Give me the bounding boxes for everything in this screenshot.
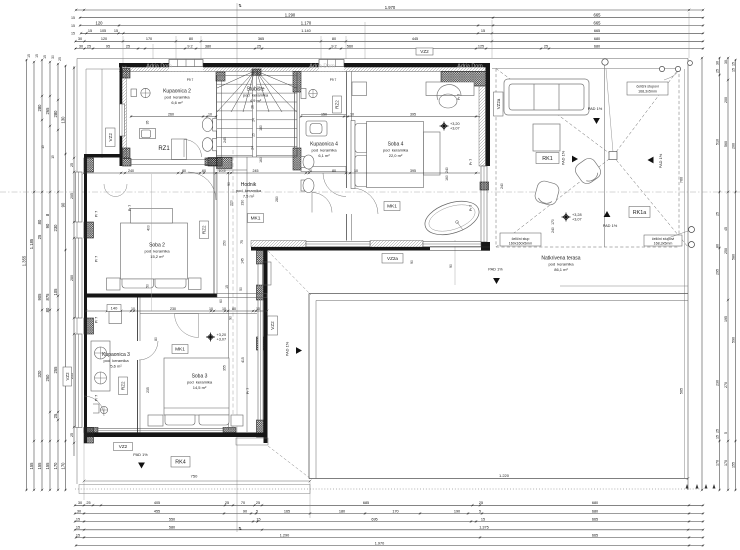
svg-text:25: 25 — [715, 69, 719, 73]
label box: celicni stupovi bottom — [644, 235, 682, 246]
svg-text:590: 590 — [731, 337, 735, 343]
bathtub — [421, 195, 484, 241]
pavement strip bottom-left — [79, 485, 310, 494]
svg-text:395: 395 — [410, 169, 416, 173]
svg-text:Pr 7: Pr 7 — [95, 256, 99, 262]
svg-text:155: 155 — [45, 462, 50, 470]
svg-text:30: 30 — [724, 60, 728, 64]
staircase stringers — [253, 72, 298, 158]
svg-text:RZ2: RZ2 — [335, 100, 340, 109]
terrace floor edge right segment y286 — [560, 285, 688, 287]
stairs landing — [217, 156, 298, 158]
svg-text:24: 24 — [252, 118, 256, 122]
patio outline outer — [309, 294, 688, 479]
Soba2/Kup3 wall y293.5-297.5 — [86, 294, 267, 298]
svg-text:+3,07: +3,07 — [572, 218, 582, 222]
slanted strut to node — [606, 69, 613, 153]
steel column circles right edge — [688, 61, 695, 248]
slope triangle: pad3 — [648, 157, 654, 164]
WC and bidet Kup2 — [202, 118, 216, 151]
svg-text:90: 90 — [227, 182, 231, 186]
svg-text:RZ1: RZ1 — [158, 146, 170, 152]
svg-text:160: 160 — [445, 175, 449, 181]
svg-text:10: 10 — [131, 307, 135, 311]
svg-text:80: 80 — [332, 169, 336, 173]
svg-text:RK1a: RK1a — [633, 210, 647, 216]
svg-text:130: 130 — [60, 116, 65, 124]
svg-text:170: 170 — [53, 462, 58, 470]
svg-text:6,1 m²: 6,1 m² — [318, 153, 330, 158]
dimension line: right B — [715, 57, 721, 492]
svg-text:405: 405 — [154, 501, 160, 505]
svg-text:1.290: 1.290 — [285, 13, 296, 18]
room label: Soba 4 — [383, 142, 409, 159]
Kup4/Soba4 partition x346-352 — [347, 72, 352, 241]
svg-text:665: 665 — [592, 533, 598, 537]
svg-text:pod keramika: pod keramika — [187, 380, 213, 385]
svg-text:PAD 1%: PAD 1% — [658, 153, 663, 168]
wall pier (hatched): soba2 e pier — [205, 158, 217, 166]
svg-text:760: 760 — [680, 177, 684, 183]
fixtures Kup4 — [301, 89, 327, 193]
svg-text:365: 365 — [258, 37, 264, 41]
svg-text:150: 150 — [321, 112, 327, 116]
dimension line: top L1 total 1.970 — [75, 5, 705, 12]
jog wall y154 x84-119 — [84, 154, 122, 158]
svg-text:455: 455 — [154, 509, 160, 513]
svg-text:25: 25 — [126, 44, 130, 48]
label box: VZ2 bottom — [114, 443, 133, 451]
washer box Kup2 — [140, 129, 156, 139]
svg-text:14,5 m²: 14,5 m² — [193, 385, 207, 390]
svg-text:15: 15 — [51, 155, 55, 159]
wall pier (hatched): lr pier mid — [257, 285, 264, 300]
svg-text:15: 15 — [27, 54, 31, 58]
svg-text:9 2: 9 2 — [187, 44, 192, 48]
svg-text:15,2 m²: 15,2 m² — [150, 254, 164, 259]
right exterior wall upper solid — [486, 63, 491, 166]
dotted property line y489 — [75, 488, 700, 490]
svg-text:25: 25 — [256, 501, 260, 505]
svg-text:125: 125 — [478, 44, 484, 48]
dimension line: right A — [701, 57, 704, 492]
dimension line: right D — [731, 59, 737, 492]
svg-text:15: 15 — [71, 16, 75, 20]
svg-text:VZ2: VZ2 — [420, 49, 429, 54]
svg-text:105: 105 — [53, 288, 58, 296]
svg-text:170: 170 — [392, 509, 398, 513]
svg-text:1.970: 1.970 — [385, 5, 396, 10]
label box: окно 140 — [107, 305, 121, 312]
small arrows at right of dotted line — [686, 484, 716, 489]
label box: RK4 — [171, 457, 190, 468]
svg-text:PAD 1%: PAD 1% — [561, 150, 566, 165]
desk and chair Soba 4 — [352, 82, 474, 108]
svg-text:200: 200 — [731, 143, 735, 149]
svg-text:80: 80 — [232, 307, 236, 311]
left exterior wall — [76, 154, 94, 443]
svg-text:Pr 7: Pr 7 — [95, 317, 99, 323]
wall pier (hatched): sw pier top — [293, 72, 301, 93]
svg-text:1.185: 1.185 — [29, 238, 34, 249]
wall pier (hatched): right wall pier — [480, 182, 489, 190]
dimension line: left C — [37, 59, 44, 492]
svg-text:230: 230 — [53, 224, 58, 232]
roof eaves outline top and left — [77, 58, 688, 60]
svg-text:90: 90 — [410, 260, 414, 264]
terrace square table — [533, 124, 560, 151]
svg-text:10: 10 — [209, 307, 213, 311]
SE corner upper section — [481, 242, 490, 251]
svg-text:Adria Dom: Adria Dom — [146, 64, 172, 70]
room label: Kupaonica 4 — [310, 142, 338, 159]
dimension line: right C — [724, 57, 730, 492]
svg-text:230: 230 — [170, 307, 176, 311]
svg-text:pod keramika: pod keramika — [144, 249, 170, 254]
node square at X crossing — [609, 152, 617, 160]
svg-text:30: 30 — [77, 509, 81, 513]
label box: MK1 soba3 — [172, 345, 188, 354]
svg-text:170: 170 — [146, 37, 152, 41]
level mark: soba4 level — [440, 122, 460, 131]
svg-text:30: 30 — [78, 37, 82, 41]
svg-text:5: 5 — [256, 509, 258, 513]
svg-text:pod keramika: pod keramika — [311, 148, 337, 153]
svg-text:pod keramika: pod keramika — [243, 93, 269, 98]
svg-text:30: 30 — [51, 55, 55, 59]
dimension line: interior kup3/soba3 — [85, 307, 269, 313]
svg-text:30: 30 — [78, 501, 82, 505]
svg-text:415: 415 — [241, 357, 245, 363]
svg-text:15: 15 — [76, 517, 80, 521]
label box: MK1 hodnik — [248, 214, 264, 223]
level mark: terrace level — [562, 213, 582, 222]
extension line x310 bottom — [309, 481, 311, 518]
svg-text:265: 265 — [45, 107, 50, 115]
left wall windows protruding — [76, 172, 83, 428]
window bump 2 in top wall — [319, 60, 344, 72]
svg-text:80: 80 — [332, 37, 336, 41]
svg-text:168,3x5mm: 168,3x5mm — [638, 90, 657, 94]
svg-text:10: 10 — [350, 112, 354, 116]
wall pier (hatched): lr pier bottom — [257, 420, 264, 437]
svg-text:25: 25 — [37, 234, 42, 239]
svg-text:270: 270 — [724, 382, 728, 388]
svg-text:550: 550 — [169, 517, 175, 521]
svg-text:80: 80 — [45, 307, 50, 312]
svg-text:4,9 m²: 4,9 m² — [250, 98, 262, 103]
svg-text:PAD 1%: PAD 1% — [133, 452, 148, 457]
svg-text:1.375: 1.375 — [479, 526, 489, 530]
svg-text:250: 250 — [724, 248, 728, 254]
svg-text:245: 245 — [253, 169, 259, 173]
svg-text:1.220: 1.220 — [499, 473, 510, 478]
svg-text:MK1: MK1 — [251, 216, 261, 222]
door arc into Kup3 — [139, 341, 158, 360]
svg-text:10: 10 — [256, 307, 260, 311]
svg-text:95: 95 — [106, 44, 110, 48]
svg-text:15: 15 — [76, 533, 80, 537]
corridor lines — [228, 172, 230, 430]
svg-text:80: 80 — [189, 37, 193, 41]
svg-text:60: 60 — [219, 299, 223, 303]
svg-text:25: 25 — [257, 44, 261, 48]
bed Soba 2 — [107, 209, 202, 291]
wall pier (hatched): lw pier 1 — [84, 158, 94, 172]
slope triangle: pad6 — [138, 463, 145, 469]
dimension line: top L3 — [79, 20, 705, 27]
svg-text:750: 750 — [191, 474, 198, 479]
svg-text:Pr 7: Pr 7 — [128, 205, 132, 211]
patio outline inner — [316, 301, 688, 479]
svg-text:15: 15 — [76, 526, 80, 530]
svg-text:10: 10 — [354, 169, 358, 173]
Soba3 north boundary line y313 — [140, 313, 257, 315]
svg-text:1.970: 1.970 — [375, 541, 385, 545]
room label: Soba 3 — [187, 374, 213, 391]
room label: Hodnik — [236, 182, 262, 199]
svg-text:90: 90 — [449, 264, 453, 268]
svg-text:86,1 m²: 86,1 m² — [554, 267, 568, 272]
svg-text:240: 240 — [128, 169, 134, 173]
svg-text:15: 15 — [731, 68, 735, 72]
svg-text:7,5 m²: 7,5 m² — [243, 194, 255, 199]
svg-text:90: 90 — [229, 316, 233, 320]
svg-text:25: 25 — [715, 429, 719, 433]
dimension line: bottom L1 — [74, 501, 705, 507]
terrace armchair B — [534, 180, 561, 207]
svg-text:10: 10 — [222, 307, 226, 311]
room label: Soba 2 — [144, 243, 170, 260]
right inner dim line x684 (760/565) — [684, 69, 686, 478]
stairs right wall x293-300 — [293, 72, 301, 171]
svg-text:280: 280 — [37, 104, 42, 112]
terrace roof valley NW ray — [496, 69, 613, 157]
svg-text:280: 280 — [53, 110, 58, 118]
lower-right wall window outer box — [263, 262, 272, 285]
label box: RZ2 kup3 — [119, 377, 128, 395]
svg-text:90: 90 — [45, 223, 50, 228]
svg-text:pod keramika: pod keramika — [164, 95, 190, 100]
svg-text:250: 250 — [45, 374, 50, 382]
svg-text:P9 7: P9 7 — [330, 78, 337, 82]
svg-text:24: 24 — [251, 146, 255, 150]
svg-text:+3,20: +3,20 — [450, 122, 460, 126]
svg-text:695: 695 — [371, 517, 377, 521]
svg-text:200: 200 — [724, 97, 728, 103]
svg-text:905: 905 — [37, 293, 42, 301]
svg-text:+3,28: +3,28 — [572, 213, 582, 217]
label box: celicni stup 160 — [500, 233, 541, 246]
svg-text:25: 25 — [479, 501, 483, 505]
svg-text:1.140: 1.140 — [301, 29, 311, 33]
svg-text:510: 510 — [715, 139, 719, 145]
svg-text:VZ2: VZ2 — [270, 321, 275, 330]
svg-text:+3,07: +3,07 — [217, 338, 227, 342]
svg-text:RK4: RK4 — [175, 460, 186, 466]
wall pier (hatched): lw pier 4 — [84, 428, 94, 444]
svg-text:25: 25 — [58, 57, 62, 61]
wall pier (hatched): stairs pier — [252, 69, 261, 75]
dimension line: interior y173 — [83, 169, 480, 175]
extension line x455 bottom — [454, 240, 456, 285]
svg-text:240: 240 — [551, 227, 555, 233]
svg-text:445: 445 — [412, 37, 418, 41]
dimension line: bottom L6 — [75, 541, 705, 547]
svg-text:22,0 m²: 22,0 m² — [389, 153, 403, 158]
svg-text:25: 25 — [715, 212, 719, 216]
svg-text:50: 50 — [146, 284, 150, 288]
svg-text:30: 30 — [715, 61, 719, 65]
svg-text:45: 45 — [724, 227, 728, 231]
svg-text:pod keramika: pod keramika — [383, 148, 409, 153]
extension line x123 top — [122, 36, 124, 63]
svg-text:RK1: RK1 — [542, 156, 553, 162]
slope triangle: pad7 — [296, 347, 302, 354]
svg-text:25: 25 — [53, 413, 58, 418]
door arc hodnik south — [312, 193, 332, 213]
svg-text:170: 170 — [551, 219, 555, 225]
wall pier (hatched): bw pier right — [223, 428, 236, 433]
svg-text:Pr 7: Pr 7 — [469, 205, 473, 211]
svg-text:26: 26 — [251, 105, 255, 109]
svg-text:25: 25 — [70, 163, 74, 167]
svg-text:P9 7: P9 7 — [187, 78, 194, 82]
dim 750 line — [84, 480, 310, 482]
svg-text:1.355: 1.355 — [21, 255, 26, 266]
svg-text:875: 875 — [45, 293, 50, 301]
washbasin circles Kup2 — [131, 88, 150, 97]
house lower-right exterior wall x257-267 — [257, 251, 268, 444]
svg-text:240: 240 — [445, 167, 449, 173]
svg-text:680: 680 — [594, 37, 600, 41]
label box: RZ2 kup4 — [333, 96, 342, 113]
Kup3/Soba3 wall x137-140 — [138, 298, 141, 433]
svg-text:665: 665 — [594, 29, 600, 33]
svg-text:VZ2a: VZ2a — [496, 98, 501, 109]
dimension line: top L2 — [79, 13, 705, 20]
room label: Kupaonica 3 — [102, 352, 130, 369]
label box: VZ2a lower — [382, 254, 403, 264]
section marker line vertical x237 top — [236, 3, 238, 59]
roof hip dash house SE corner to patio corner — [268, 446, 311, 479]
Soba2 east wall x214-217 — [214, 166, 217, 294]
svg-text:+3,20: +3,20 — [217, 333, 227, 337]
room label: Natkrivena terasa — [541, 256, 580, 273]
extension line x365 top — [364, 22, 366, 59]
svg-text:1.290: 1.290 — [280, 533, 290, 537]
dimension line: left B — [29, 61, 36, 492]
steel column circles top edge — [602, 59, 681, 72]
svg-text:15: 15 — [88, 29, 92, 33]
terrace armchair A — [573, 156, 604, 187]
svg-text:Pr 7: Pr 7 — [246, 388, 250, 394]
label box: celicni stupovi top — [627, 82, 668, 95]
right exterior wall hatch strip — [479, 86, 486, 166]
svg-text:155: 155 — [37, 462, 42, 470]
svg-text:25: 25 — [225, 501, 229, 505]
bed Soba 3 — [148, 358, 243, 426]
svg-text:665: 665 — [594, 20, 602, 25]
bottom wall of upper-right section — [251, 241, 490, 251]
dimension line: top L4 — [80, 29, 705, 35]
svg-text:MK1: MK1 — [387, 204, 397, 210]
wall pier (hatched): bw pier left — [84, 428, 98, 433]
svg-text:380: 380 — [205, 44, 211, 48]
svg-text:230: 230 — [715, 380, 719, 386]
terrace roof valley SW ray — [496, 156, 613, 247]
svg-text:320: 320 — [37, 370, 42, 378]
dimension line: bottom L4 — [74, 526, 705, 532]
IW1 wall below Kupaonica 2 (y158-166) — [123, 158, 223, 167]
roof hip dash house NE corner to patio corner — [268, 251, 311, 295]
section cut dash-dot line y192 — [0, 191, 740, 193]
extension line x84 bottom — [83, 443, 85, 500]
dimension line: left F — [60, 65, 67, 492]
svg-text:230: 230 — [241, 200, 245, 206]
terrace roof valley NE ray — [613, 69, 679, 157]
label box: VZ2 upper left — [106, 128, 116, 147]
svg-text:195: 195 — [724, 316, 728, 322]
section line x237 through house — [236, 59, 238, 445]
extension line x153 top — [152, 44, 154, 59]
svg-text:560: 560 — [724, 141, 728, 147]
window bump 1 in top wall — [169, 60, 203, 72]
svg-text:15: 15 — [225, 285, 229, 289]
door arc Kup2 — [184, 140, 202, 158]
svg-text:PAD 1%: PAD 1% — [285, 341, 290, 356]
svg-text:180: 180 — [259, 125, 263, 131]
label box: RZ2 soba2 — [200, 221, 209, 239]
svg-text:235: 235 — [146, 387, 150, 393]
wall pier (hatched): NE corner — [441, 72, 486, 87]
svg-text:9 2: 9 2 — [331, 44, 336, 48]
dimension line: bottom L2 — [74, 509, 705, 515]
svg-text:čelični stupovi: čelični stupovi — [652, 237, 675, 241]
svg-text:120: 120 — [96, 20, 104, 25]
svg-text:245: 245 — [223, 137, 227, 143]
svg-text:15: 15 — [256, 517, 260, 521]
svg-text:Pr 7: Pr 7 — [457, 94, 461, 100]
slope triangle: pad2 — [572, 156, 578, 163]
svg-text:RZ2: RZ2 — [121, 381, 126, 390]
svg-text:260: 260 — [168, 112, 174, 116]
svg-text:105: 105 — [100, 29, 106, 33]
svg-text:180: 180 — [339, 509, 345, 513]
dimension line: left D — [45, 61, 52, 492]
svg-text:PAD 1%: PAD 1% — [488, 267, 503, 272]
top exterior wall solid line — [119, 63, 489, 72]
svg-text:240: 240 — [500, 183, 504, 189]
door arc hodnik to Kup4 — [323, 173, 346, 197]
label box: VZ2 top wall — [416, 48, 433, 55]
upper-left exterior wall x119 — [120, 63, 131, 166]
svg-text:15: 15 — [43, 55, 47, 59]
wall pier (hatched): sw pier bottom — [293, 148, 301, 170]
svg-text:MK1: MK1 — [175, 347, 185, 353]
door swing arc soba2 left — [104, 184, 127, 196]
label box: MK1 soba4 — [384, 202, 400, 211]
svg-text:15: 15 — [715, 435, 719, 439]
wall pier (hatched): lw pier 2 — [84, 222, 94, 238]
svg-text:160x160x5mm: 160x160x5mm — [509, 242, 533, 246]
svg-text:168,3x5mm: 168,3x5mm — [654, 242, 673, 246]
svg-text:255: 255 — [53, 366, 58, 374]
svg-text:580: 580 — [731, 254, 735, 260]
svg-text:Adria Dom: Adria Dom — [457, 64, 483, 70]
svg-text:5: 5 — [479, 509, 481, 513]
svg-text:90: 90 — [243, 509, 247, 513]
